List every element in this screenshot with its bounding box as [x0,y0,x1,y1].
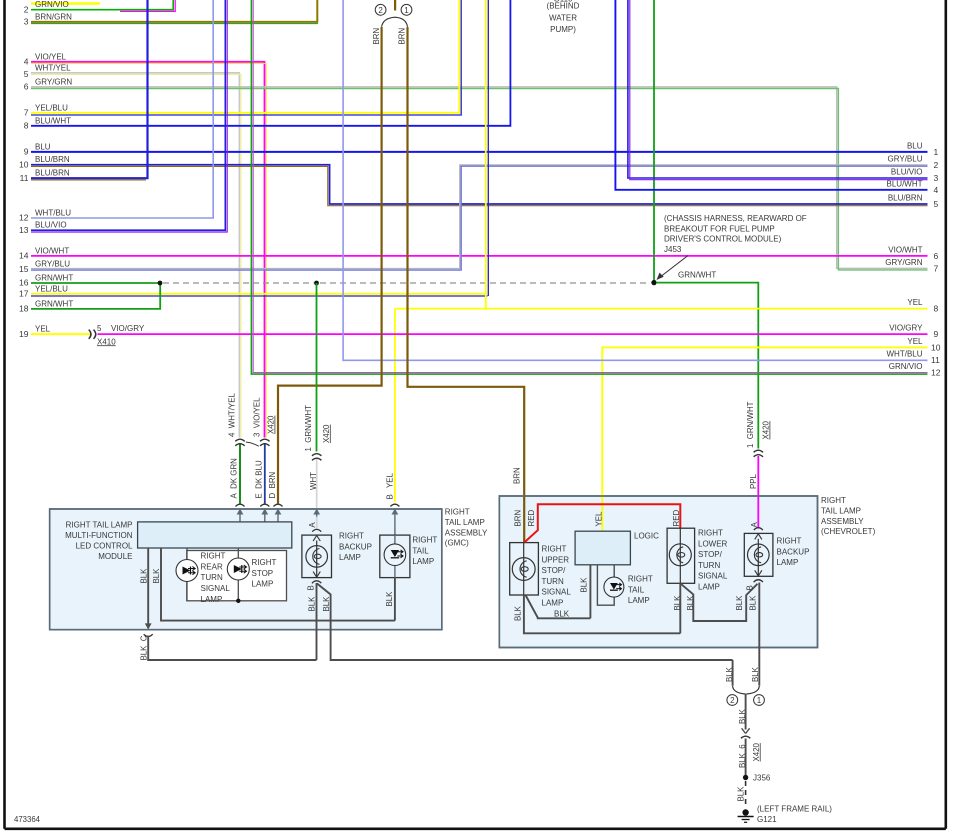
svg-text:GRN/VIO: GRN/VIO [889,362,923,371]
right tail lamp label (chevy) [628,575,653,606]
GMC backup lamp pigtail arc A [312,529,321,531]
svg-text:RIGHT: RIGHT [445,508,470,517]
svg-text:RIGHT: RIGHT [412,536,437,545]
GMC module BLK pin1 wire (BLK C) [147,548,149,628]
svg-text:7: 7 [934,263,939,273]
svg-text:RIGHT: RIGHT [542,545,567,554]
wire row6 GRY/GRN across to right row7 [31,87,928,269]
chevy tail lamp LED [604,577,624,597]
svg-text:YEL/BLU: YEL/BLU [35,284,68,293]
wire below X420 to J356 [745,739,747,776]
wire PPL below X420 to chevy backup A [757,456,759,529]
svg-text:YEL: YEL [385,472,394,488]
GMC backup B pin arc [312,581,321,583]
chevy backup internals [748,534,770,577]
svg-text:BLU/BRN: BLU/BRN [35,155,70,164]
GMC tail lamp assembly box fill [50,509,442,630]
wire row8 BLU/WHT up at x510 [31,0,510,126]
svg-text:B: B [385,494,394,499]
svg-text:REAR: REAR [201,562,223,571]
svg-text:A: A [750,522,759,528]
svg-text:BLK: BLK [736,786,745,802]
GMC module BLK pin2 wire to tail lamp return [161,548,395,621]
svg-text:LOGIC: LOGIC [634,532,659,541]
chevy left bulb BLK diagonal to LOGIC return [526,595,591,618]
wire row18 GRN/WHT up to splice [31,283,160,309]
wire right row10 YEL from LOGIC drop [602,347,927,531]
chevy backup lamp rect [744,533,773,576]
wire row4 VIO/YEL down to X420 pin3 [31,62,265,438]
chevy lower stop/turn lamp rect [667,528,695,583]
wire row17 YEL/BLU to jog at x485 [31,293,486,295]
GMC LED control module [138,522,292,548]
svg-text:WATER: WATER [549,13,577,22]
svg-text:GRN/WHT: GRN/WHT [678,271,716,280]
wire GRN/WHT vertical x654 to top [653,0,655,283]
svg-text:X410: X410 [97,337,116,346]
svg-text:MULTI-FUNCTION: MULTI-FUNCTION [65,531,133,540]
svg-text:BLU/VIO: BLU/VIO [891,168,923,177]
rear turn signal LED circle [176,560,198,582]
svg-text:X420: X420 [267,415,276,434]
circled 2 bottom [727,695,738,706]
svg-text:BLU/BRN: BLU/BRN [35,169,70,178]
GMC tail lamp rect [380,535,410,578]
svg-text:BLK: BLK [725,666,734,682]
GMC entry arrows [237,509,399,536]
svg-text:RIGHT: RIGHT [252,558,277,567]
svg-text:1 GRN/WHT: 1 GRN/WHT [304,405,313,452]
svg-text:BLK: BLK [514,605,523,621]
svg-text:5: 5 [24,69,29,79]
svg-text:BREAKOUT FOR FUEL PUMP: BREAKOUT FOR FUEL PUMP [664,224,775,233]
wire module pin to rear turn LED [186,548,188,601]
wire VIO/GRY after X410 to right row9 [98,333,928,335]
svg-text:LAMP: LAMP [628,596,650,605]
ground symbol G121 [738,809,754,822]
svg-text:10: 10 [19,159,29,169]
stop LED circle [227,558,249,580]
svg-text:LAMP: LAMP [777,558,799,567]
svg-text:1: 1 [757,696,762,705]
wire right row11 WHT/BLU from top x343 [343,0,927,360]
wire row16 GRN/WHT solid to splice [31,282,158,284]
svg-text:LAMP: LAMP [698,583,720,592]
svg-text:6: 6 [934,251,939,261]
svg-text:TAIL LAMP: TAIL LAMP [821,506,861,515]
GMC backup B wire diagonal branch to bus [317,584,733,661]
svg-text:BLK: BLK [139,568,148,584]
svg-text:(GMC): (GMC) [445,539,469,548]
svg-text:9: 9 [24,147,29,157]
wire module pin to stop LED [237,548,239,601]
svg-text:X420: X420 [322,424,331,443]
svg-text:8: 8 [24,121,29,131]
svg-text:12: 12 [19,213,29,223]
splice J356 [743,775,748,780]
GMC tail lamp return wire [394,578,396,621]
svg-text:3: 3 [24,17,29,27]
wire right row3 BLU/VIO from top [628,0,928,178]
svg-text:RIGHT: RIGHT [628,575,653,584]
svg-text:2: 2 [934,160,939,170]
svg-text:13: 13 [19,225,29,235]
wire row5 WHT/YEL down to X420 pin4 [31,73,239,438]
svg-text:TURN: TURN [542,577,564,586]
X410 inline connector [89,330,96,339]
wire right row12 GRN/VIO from top x251.5 [253,0,927,373]
wire row9 BLU across to right row1 [31,151,928,153]
svg-text:BLK: BLK [308,596,317,612]
svg-text:4: 4 [24,57,29,67]
wire row3 BRN/GRN [31,0,317,22]
svg-text:BLK: BLK [749,595,758,611]
svg-text:9: 9 [934,329,939,339]
svg-text:15: 15 [19,264,29,274]
svg-text:WHT: WHT [309,472,318,490]
svg-text:D BRN: D BRN [268,471,277,498]
svg-text:GRY/GRN: GRY/GRN [885,258,922,267]
svg-text:DRIVER'S CONTROL MODULE): DRIVER'S CONTROL MODULE) [664,235,782,244]
chevy left bulb BLK down [524,595,680,633]
svg-text:BACKUP: BACKUP [777,547,810,556]
svg-text:BLK: BLK [579,577,588,593]
svg-text:B: B [746,585,755,590]
svg-text:BLK: BLK [152,568,161,584]
chevy upper stop/turn lamp rect [510,543,539,595]
svg-text:BLK: BLK [673,595,682,611]
wire GRN/WHT vertical x316.4 below splice to X420 pin1 [316,283,318,452]
svg-text:2: 2 [24,4,29,14]
svg-text:RED: RED [672,510,681,527]
svg-text:(CHEVROLET): (CHEVROLET) [821,527,876,536]
svg-text:(LEFT FRAME RAIL): (LEFT FRAME RAIL) [757,805,832,814]
wire DK BLU below X420 pin3 [264,443,266,504]
svg-text:STOP/: STOP/ [698,550,723,559]
G110 text block (behind water pump) [547,0,580,34]
X420 connector bottom (arrow + arc) [742,728,750,733]
wire row11 BLU/BRN up at x147.5 [31,0,148,178]
right row numbers [931,147,941,378]
svg-text:14: 14 [19,251,29,261]
wire GRN/WHT from J453 right and down to X420 [657,283,758,449]
svg-text:1: 1 [934,147,939,157]
svg-text:LAMP: LAMP [412,557,434,566]
svg-text:UPPER: UPPER [542,555,570,564]
svg-text:A: A [308,522,317,528]
svg-text:BLU/WHT: BLU/WHT [35,116,71,125]
svg-text:BLU: BLU [907,141,923,150]
wire row15 GRY/BLU up at x460 to right row2 [31,165,928,269]
wire BLK C below box to bus [148,636,316,661]
wire WHT below X420 pin1 to GMC backup A [316,458,318,529]
svg-text:BLK: BLK [735,595,744,611]
right tail lamp label (GMC) [412,536,437,567]
svg-text:RED: RED [527,510,536,527]
svg-text:GRY/GRN: GRY/GRN [35,77,72,86]
GMC module label [65,520,133,561]
svg-text:MODULE: MODULE [98,552,132,561]
svg-text:(BEHIND: (BEHIND [547,2,580,11]
chevy lower bulb BLK diagonal to backup B [681,584,758,621]
svg-text:BLK: BLK [322,596,331,612]
wire B YEL down into GMC box [394,309,396,503]
svg-text:RIGHT: RIGHT [201,552,226,561]
GMC backup lamp rect [302,535,332,578]
chevy lower bulb internals [669,528,691,583]
svg-text:STOP: STOP [252,569,274,578]
svg-text:5: 5 [934,199,939,209]
svg-text:11: 11 [20,173,29,183]
merged BLK wire down [745,694,747,730]
wire row10 BLU/BRN to right row5 [31,165,928,204]
svg-text:WHT/BLU: WHT/BLU [887,349,923,358]
svg-text:BLU/BRN: BLU/BRN [888,194,923,203]
J453 callout text [664,214,807,254]
bracket between X420 connectors [246,442,259,446]
svg-text:3 VIO/YEL: 3 VIO/YEL [252,397,261,437]
svg-text:VIO/GRY: VIO/GRY [889,324,923,333]
svg-text:WHT/BLU: WHT/BLU [35,209,71,218]
svg-text:4: 4 [934,185,939,195]
dashed BLK to ground [745,781,747,808]
svg-text:B: B [306,585,315,590]
svg-text:ASSEMBLY: ASSEMBLY [821,517,864,526]
svg-text:18: 18 [19,304,29,314]
svg-text:YEL/BLU: YEL/BLU [35,103,68,112]
chevy lower bulb BLK down to bus [679,583,681,633]
wire BRN 2 left branch down to GMC pin D [278,27,382,504]
wire row14 VIO/WHT across to right row6 [31,255,928,257]
GMC box label [445,508,488,548]
wire RED from chevy left bulb to lower bulb [525,504,681,542]
svg-text:GRY/BLU: GRY/BLU [888,155,923,164]
svg-text:STOP/: STOP/ [542,566,567,575]
svg-text:VIO/WHT: VIO/WHT [888,246,922,255]
svg-text:2: 2 [730,696,735,705]
svg-text:19: 19 [19,329,29,339]
svg-text:BLK C: BLK C [139,635,148,660]
wire row13 BLU/VIO up at x225 [31,0,225,230]
svg-text:BLK: BLK [751,666,760,682]
bus to bottom connector 2 [732,660,734,686]
svg-text:BLK: BLK [686,595,695,611]
GMC box edge connector arcs [236,504,400,506]
chevy box label [821,496,876,536]
svg-text:7: 7 [24,108,29,118]
svg-text:TURN: TURN [698,561,720,570]
right backup lamp label (GMC) [339,532,372,563]
svg-text:2: 2 [378,6,383,15]
svg-text:BRN: BRN [514,510,523,527]
wire row2 GRN/VIO [31,0,173,10]
svg-text:BLU/WHT: BLU/WHT [887,180,923,189]
chevy backup B wire down to connector 1 [758,583,760,686]
GMC backup B wire straight down [316,583,318,660]
wire YEL vertical x485 from top + jog [485,0,487,309]
svg-text:X420: X420 [762,420,771,439]
svg-text:LAMP: LAMP [339,553,361,562]
svg-text:1: 1 [404,6,409,15]
svg-text:A DK GRN: A DK GRN [229,458,238,499]
wire BRN stub at top with brace [394,0,396,11]
svg-text:VIO/WHT: VIO/WHT [35,246,69,255]
svg-text:TAIL: TAIL [628,585,645,594]
GMC tail lamp LED internals [384,535,406,578]
svg-text:BRN: BRN [513,467,522,484]
svg-text:PPL: PPL [749,473,758,489]
svg-text:LAMP: LAMP [201,595,223,604]
svg-text:BLU: BLU [35,142,51,151]
svg-text:YEL: YEL [595,511,604,527]
svg-text:J356: J356 [753,774,771,783]
svg-text:J453: J453 [664,245,682,254]
svg-text:473364: 473364 [14,815,41,824]
svg-text:BACKUP: BACKUP [339,542,372,551]
wire row12 WHT/BLU up at x213 [31,0,213,218]
right upper stop turn label [542,545,572,608]
svg-text:G121: G121 [757,815,777,824]
right backup lamp label (chevy) [777,537,810,568]
right row labels [885,141,923,371]
svg-text:BLK: BLK [738,708,747,724]
right lower stop turn label [698,529,728,592]
splice dot J453 [651,280,656,285]
svg-text:BRN: BRN [372,28,381,45]
GMC tail lamp assembly box (border redraw) [50,509,442,630]
splice dot row16 x316.5 [314,281,319,286]
svg-text:SIGNAL: SIGNAL [542,588,572,597]
svg-text:VIO/YEL: VIO/YEL [35,52,67,61]
chevy backup A arc [754,528,763,530]
svg-text:YEL: YEL [35,325,51,334]
wire right row4 BLU/WHT from top [615,0,927,190]
circled 2 connector top [375,4,412,15]
svg-text:E DK BLU: E DK BLU [255,460,264,498]
svg-text:BRN: BRN [398,28,407,45]
svg-text:VIO/GRY: VIO/GRY [111,324,145,333]
wire row19 YEL to X410 [31,333,91,335]
wire DK GRN below X420 pin4 [239,443,241,504]
svg-text:5: 5 [97,324,102,333]
splice dot row16 x160 [158,281,163,286]
svg-text:1 GRN/WHT: 1 GRN/WHT [746,401,755,448]
LOGIC tail LED loop stems [597,565,614,605]
right rear turn signal lamp label [201,552,231,604]
svg-text:BLU/VIO: BLU/VIO [35,221,67,230]
wire row1 YEL (label cut at top) [31,2,100,5]
svg-text:11: 11 [931,355,940,365]
right stop lamp label [252,558,277,589]
chevy backup B arc [754,580,763,582]
X420 connector chevy (GRN/WHT to PPL) [754,450,763,457]
svg-text:SIGNAL: SIGNAL [201,584,231,593]
svg-text:LAMP: LAMP [542,599,564,608]
GMC backup lamp internals [306,536,328,578]
LOGIC BLK return stem [589,565,591,619]
chevy tail lamp assembly box fill [499,496,817,648]
svg-text:RIGHT: RIGHT [821,496,846,505]
svg-text:10: 10 [931,343,941,353]
BLK C exit arc [144,634,153,636]
svg-text:BRN/GRN: BRN/GRN [35,12,72,21]
X420 connector pin4 (WHT/YEL to DK GRN) [235,439,244,446]
svg-text:6: 6 [24,82,29,92]
svg-text:YEL: YEL [907,298,923,307]
svg-text:RIGHT TAIL LAMP: RIGHT TAIL LAMP [66,520,133,529]
circled 1 bottom [754,695,765,706]
svg-text:(CHASSIS HARNESS, REARWARD OF: (CHASSIS HARNESS, REARWARD OF [664,214,807,223]
chevy upper bulb internals [512,543,535,595]
svg-text:LOWER: LOWER [698,539,728,548]
svg-text:PUMP): PUMP) [550,25,576,34]
wire row7 YEL/BLU up at x459 [31,0,459,113]
svg-text:LAMP: LAMP [252,580,274,589]
svg-text:SIGNAL: SIGNAL [698,572,728,581]
svg-text:16: 16 [19,278,29,288]
svg-text:RIGHT: RIGHT [777,537,802,546]
wire YEL right row8 and branch to GMC B [395,308,928,310]
svg-text:RIGHT: RIGHT [339,532,364,541]
svg-text:BLK: BLK [385,591,394,607]
svg-text:4 WHT/YEL: 4 WHT/YEL [228,393,237,437]
svg-text:GRN/VIO: GRN/VIO [35,0,69,9]
svg-text:17: 17 [19,289,29,299]
svg-text:GRY/BLU: GRY/BLU [35,260,70,269]
svg-text:BLK: BLK [554,609,570,618]
left row numbers [19,4,29,338]
svg-text:12: 12 [931,367,941,377]
svg-text:WHT/YEL: WHT/YEL [35,63,71,72]
splice dot stop LED bottom [236,599,240,603]
svg-text:LED CONTROL: LED CONTROL [76,541,133,550]
svg-text:ASSEMBLY: ASSEMBLY [445,529,488,538]
wire row16 dashed GRN/WHT [163,282,314,284]
svg-text:GRN/WHT: GRN/WHT [35,274,73,283]
svg-text:TAIL: TAIL [412,546,429,555]
LOGIC box [575,531,630,565]
svg-text:YEL: YEL [907,337,923,346]
svg-text:TURN: TURN [201,573,223,582]
svg-text:X420: X420 [752,742,761,761]
svg-text:3: 3 [934,173,939,183]
svg-text:GRN/WHT: GRN/WHT [35,299,73,308]
left row labels [35,0,73,334]
X420 connector pin3 (VIO/YEL to DK BLU) [260,439,269,446]
svg-text:8: 8 [934,303,939,313]
merge brace bottom connectors [733,686,760,694]
brace under top connector [382,17,408,27]
X420 connector pin1 (GRN/WHT to WHT) [312,454,321,461]
svg-text:RIGHT: RIGHT [698,529,723,538]
svg-text:TAIL LAMP: TAIL LAMP [445,518,485,527]
wire BRN 1 right branch down to chevy bulb [408,27,525,542]
GMC LED sub-box [187,551,287,601]
J453 arrow [657,256,689,281]
chevy tail lamp assembly box (border redraw) [499,496,817,648]
